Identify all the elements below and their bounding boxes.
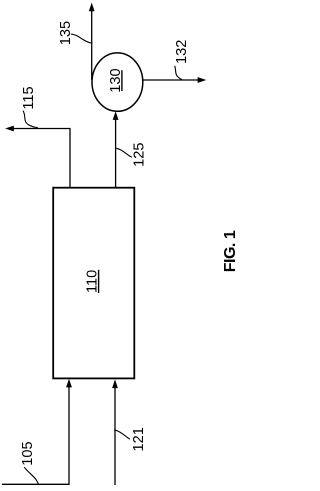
arrowhead 135 bbox=[89, 3, 95, 12]
arrowhead 115 bbox=[5, 126, 14, 132]
leader 115 bbox=[23, 111, 38, 128]
wire 105 (inlet, bottom left L-shape) bbox=[2, 387, 69, 485]
svg-text:105: 105 bbox=[20, 441, 36, 465]
leader 135 bbox=[71, 34, 91, 43]
arrowhead 125 bbox=[113, 111, 119, 120]
svg-text:121: 121 bbox=[131, 427, 147, 451]
mixer circle 130 bbox=[92, 53, 143, 111]
label 110 bbox=[85, 270, 101, 293]
svg-text:125: 125 bbox=[131, 143, 147, 167]
svg-text:115: 115 bbox=[21, 86, 37, 109]
wire 132 (circle outlet, right) bbox=[143, 79, 199, 81]
arrowhead 132 bbox=[198, 77, 207, 83]
leader 132 bbox=[175, 66, 182, 80]
svg-text:FIG. 1: FIG. 1 bbox=[222, 230, 239, 272]
wire 121 (inlet, bottom vertical) bbox=[114, 387, 116, 485]
wire 115 (outlet, top left L-shape) bbox=[13, 129, 70, 188]
wire 125 (box to circle) bbox=[115, 119, 117, 188]
leader 125 bbox=[116, 148, 132, 157]
leader 121 bbox=[114, 430, 130, 439]
leader 105 bbox=[24, 467, 38, 484]
svg-text:132: 132 bbox=[174, 40, 190, 64]
label 130 bbox=[108, 68, 124, 92]
svg-text:135: 135 bbox=[58, 21, 74, 45]
box 110 bbox=[53, 188, 134, 379]
arrowhead 121 bbox=[112, 379, 118, 388]
arrowhead 105 bbox=[66, 379, 72, 388]
wire 135 (circle outlet, up) bbox=[91, 10, 93, 80]
